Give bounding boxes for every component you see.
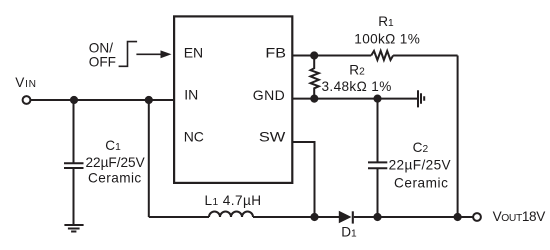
svg-text:FB: FB — [265, 46, 286, 62]
svg-text:SW: SW — [259, 130, 286, 146]
svg-text:Ceramic: Ceramic — [394, 175, 448, 190]
svg-text:3.48kΩ 1%: 3.48kΩ 1% — [322, 79, 392, 94]
svg-text:IN: IN — [184, 87, 198, 103]
svg-text:GND: GND — [253, 87, 285, 103]
svg-text:EN: EN — [184, 45, 203, 61]
svg-text:100kΩ 1%: 100kΩ 1% — [354, 32, 420, 47]
svg-text:22µF/25V: 22µF/25V — [85, 155, 144, 170]
svg-text:NC: NC — [184, 129, 204, 145]
svg-text:ON/: ON/ — [89, 40, 113, 55]
svg-text:Ceramic: Ceramic — [88, 171, 141, 186]
svg-text:22µF/25V: 22µF/25V — [389, 158, 451, 173]
svg-text:OFF: OFF — [89, 54, 116, 69]
